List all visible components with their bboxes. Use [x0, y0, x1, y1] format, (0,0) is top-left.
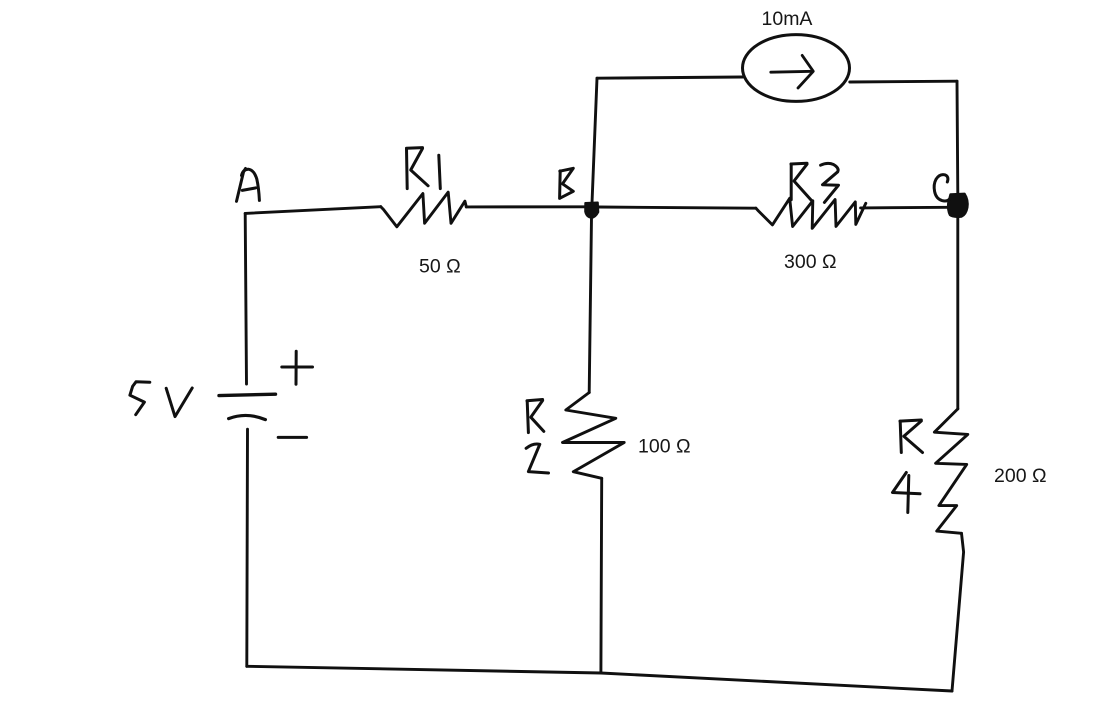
wire battery to bottom left corner: [245, 429, 249, 666]
wire B down to R2: [589, 217, 591, 393]
wire B to R3: [598, 207, 756, 208]
wire R4 to bottom right corner: [952, 533, 964, 691]
current source arrow: [771, 55, 814, 88]
svg-text:300 Ω: 300 Ω: [784, 251, 837, 273]
battery value 5V: [130, 382, 192, 417]
svg-text:100 Ω: 100 Ω: [638, 436, 691, 458]
node A label: [237, 169, 260, 202]
svg-text:200 Ω: 200 Ω: [994, 465, 1047, 487]
resistor R3 label: [791, 163, 839, 202]
battery - terminal: [278, 436, 306, 439]
battery + terminal: [282, 351, 313, 384]
resistor R2 label: [526, 400, 548, 474]
resistor R4 label: [893, 420, 923, 513]
resistor R2: [563, 393, 625, 479]
node B junction dot: [585, 203, 598, 218]
wire top to current source: [597, 77, 743, 78]
wire B up to current source: [592, 78, 597, 203]
bottom wire: [247, 666, 952, 691]
battery V1 top plate: [219, 394, 276, 395]
node C label: [934, 175, 951, 201]
svg-text:50 Ω: 50 Ω: [419, 255, 461, 277]
wire C down to R4: [956, 217, 959, 409]
wire current source to top right corner: [850, 80, 957, 84]
battery V1 bottom plate: [229, 415, 266, 419]
wire A down to battery: [245, 213, 246, 384]
wire A to R1: [245, 207, 381, 214]
resistor R4: [934, 409, 967, 533]
node B label: [560, 168, 574, 198]
node C junction dot: [948, 194, 967, 217]
wire R2 to bottom: [599, 478, 603, 673]
current source I1: [743, 35, 850, 102]
wire top right corner down to node C: [956, 81, 960, 194]
resistor R1 label: [407, 148, 441, 189]
wire R3 to C: [861, 206, 949, 209]
resistor R3: [756, 198, 866, 228]
wire R1 to B: [466, 205, 585, 208]
resistor R1: [381, 192, 467, 227]
svg-text:10mA: 10mA: [762, 8, 813, 30]
